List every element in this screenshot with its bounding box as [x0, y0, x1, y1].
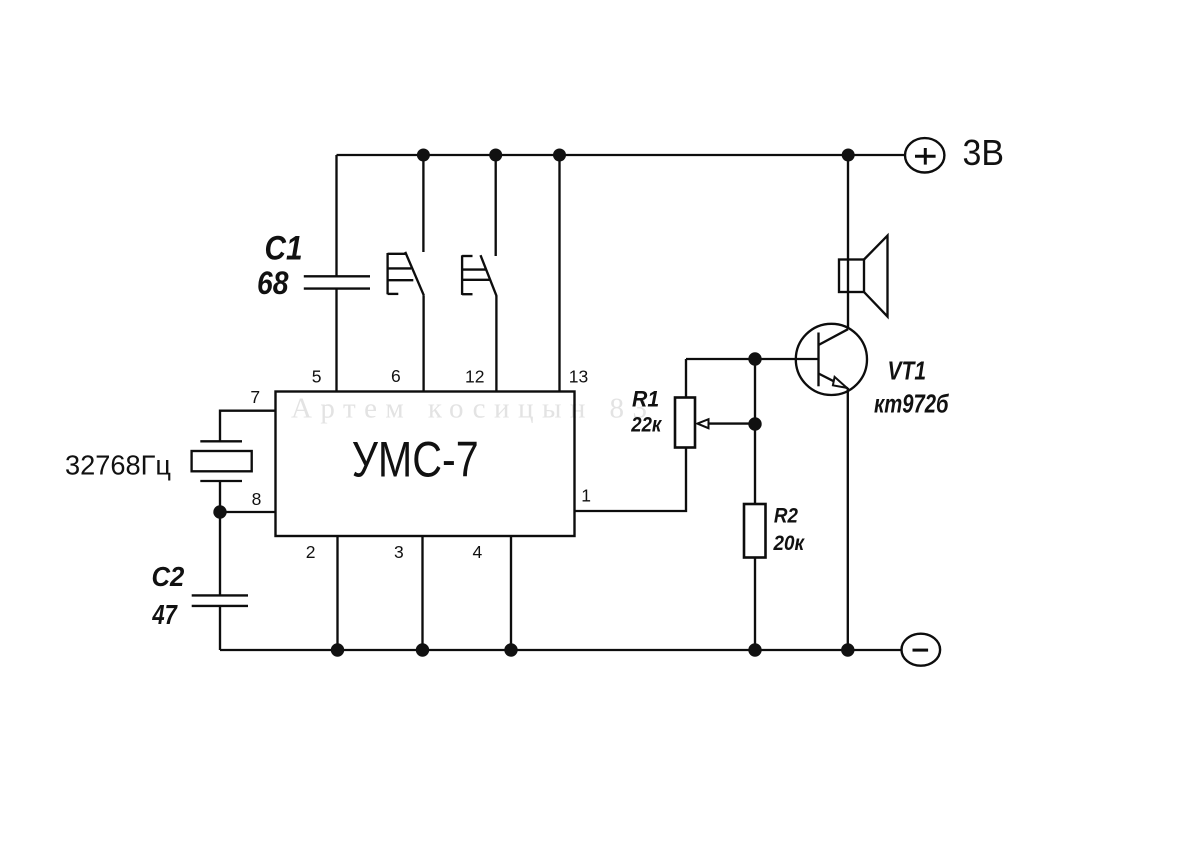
svg-text:кт972б: кт972б — [874, 389, 949, 419]
svg-text:4: 4 — [473, 542, 483, 562]
svg-text:7: 7 — [250, 387, 260, 407]
svg-text:R2: R2 — [774, 503, 798, 527]
svg-text:5: 5 — [312, 367, 322, 387]
svg-text:47: 47 — [152, 599, 178, 630]
svg-text:1: 1 — [581, 485, 591, 505]
svg-text:С2: С2 — [152, 561, 185, 592]
svg-text:8: 8 — [252, 489, 262, 509]
svg-text:VT1: VT1 — [888, 356, 927, 386]
svg-text:R1: R1 — [632, 387, 659, 412]
svg-text:6: 6 — [391, 366, 401, 386]
svg-text:УМС-7: УМС-7 — [352, 432, 479, 488]
svg-text:12: 12 — [465, 367, 484, 387]
svg-text:3: 3 — [394, 542, 404, 562]
svg-text:22к: 22к — [630, 412, 662, 436]
svg-text:68: 68 — [257, 265, 289, 301]
svg-text:20к: 20к — [773, 531, 805, 555]
svg-text:32768Гц: 32768Гц — [65, 450, 171, 481]
svg-text:3В: 3В — [963, 132, 1005, 173]
svg-text:2: 2 — [306, 542, 316, 562]
svg-text:13: 13 — [569, 367, 588, 387]
svg-text:C1: C1 — [265, 229, 303, 267]
